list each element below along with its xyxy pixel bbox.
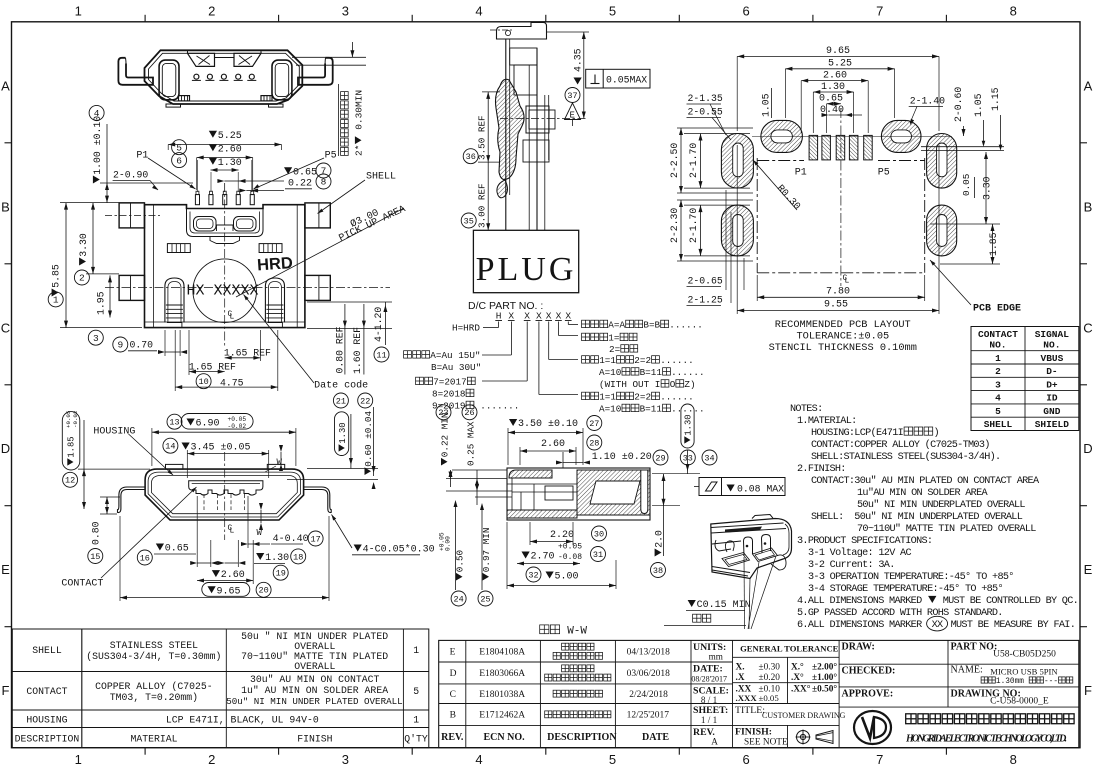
svg-text:B: B: [1, 199, 10, 214]
rev table text: [441, 643, 670, 743]
svg-text:±0.20: ±0.20: [759, 673, 781, 683]
svg-text:A=10: A=10: [599, 367, 621, 378]
svg-text:XX: XX: [932, 620, 943, 631]
svg-text:7: 7: [876, 752, 883, 767]
svg-text:27: 27: [589, 419, 599, 429]
svg-text:0.60 ±0.04: 0.60 ±0.04: [363, 410, 374, 466]
svg-text:A=Au 15U": A=Au 15U": [430, 350, 480, 361]
svg-text:FINISH:: FINISH:: [735, 727, 772, 738]
svg-text:2-1.70: 2-1.70: [688, 143, 699, 178]
svg-text:70~110U" MATTE TIN PLATED OVER: 70~110U" MATTE TIN PLATED OVERALL: [857, 523, 1036, 535]
svg-text:......: ......: [671, 367, 704, 378]
front view side lugs: [119, 203, 330, 301]
svg-text:CONTACT: CONTACT: [61, 579, 103, 590]
mating view dashed contact lines: [204, 494, 245, 510]
dim 0.65 (7): [284, 167, 292, 174]
svg-text:.X: .X: [736, 673, 745, 683]
svg-text:.......: .......: [475, 401, 520, 412]
svg-text:HOUSING:LCP(E471I: HOUSING:LCP(E471I: [811, 427, 904, 439]
svg-text:1: 1: [413, 715, 419, 726]
svg-text:3.30: 3.30: [982, 176, 993, 200]
svg-text:C: C: [450, 690, 456, 700]
svg-text:1u" AU MIN ON SOLDER AREA: 1u" AU MIN ON SOLDER AREA: [241, 685, 388, 696]
svg-text:-0.08: -0.08: [558, 553, 582, 562]
svg-text:A: A: [1084, 78, 1093, 93]
svg-text:5.25: 5.25: [828, 59, 852, 70]
svg-text:5: 5: [609, 4, 616, 19]
zone letters sides: [1, 78, 1093, 698]
svg-text:B: B: [1084, 199, 1093, 214]
svg-text:6.ALL DIMENSIONS MARKER: 6.ALL DIMENSIONS MARKER: [797, 620, 922, 631]
dim 3.00 REF: [477, 183, 488, 228]
pcb dim 2-2.50: [669, 143, 680, 178]
svg-text:7.80: 7.80: [826, 287, 850, 298]
top view shell outline: [145, 50, 303, 104]
svg-text:±0.05: ±0.05: [759, 693, 780, 703]
svg-text:5.00: 5.00: [555, 572, 579, 583]
svg-text:2.0: 2.0: [654, 530, 665, 548]
dim 1.00 +-0.10 (4): [89, 105, 104, 120]
svg-text:32: 32: [528, 570, 538, 580]
dim 0.22 MIN (23): [436, 405, 451, 420]
svg-text:1.MATERIAL:: 1.MATERIAL:: [797, 416, 857, 427]
code letters: [495, 311, 571, 322]
svg-text:TM03, T=0.20mm): TM03, T=0.20mm): [110, 692, 198, 703]
plug stem: [490, 23, 588, 231]
section caption: [540, 625, 549, 634]
svg-text:5.25: 5.25: [218, 131, 242, 142]
svg-text:12: 12: [65, 476, 75, 486]
svg-text:DRAW:: DRAW:: [842, 642, 875, 653]
svg-text:A=A: A=A: [608, 320, 625, 331]
title block grid: [439, 640, 1079, 747]
svg-text:MICRO USB 5PIN: MICRO USB 5PIN: [990, 667, 1058, 677]
svg-text:13: 13: [169, 418, 179, 428]
svg-text:E1804108A: E1804108A: [479, 647, 525, 657]
svg-text:CUSTOMER DRAWING: CUSTOMER DRAWING: [762, 711, 846, 720]
svg-text:ECN NO.: ECN NO.: [484, 732, 526, 743]
svg-text:0.00: 0.00: [445, 536, 452, 551]
svg-text:2.60: 2.60: [221, 570, 245, 581]
svg-text:1.10 ±0.20: 1.10 ±0.20: [592, 452, 652, 463]
svg-text:B=11: B=11: [640, 367, 663, 378]
svg-text:3: 3: [995, 379, 1001, 390]
dim 9.65 (20): [256, 582, 271, 597]
svg-text:......: ......: [669, 320, 702, 331]
svg-text:F: F: [1084, 683, 1092, 698]
svg-text:X: X: [565, 311, 571, 322]
svg-text:3-4 STORAGE TEMPERATURE:-45° T: 3-4 STORAGE TEMPERATURE:-45° TO +85°: [808, 583, 1003, 595]
svg-text:X: X: [556, 311, 562, 322]
svg-text:1.85: 1.85: [988, 232, 999, 256]
svg-text:38: 38: [653, 566, 663, 576]
top view lugs: [159, 60, 292, 100]
svg-text:CONTACT:COPPER ALLOY (C7025-TM: CONTACT:COPPER ALLOY (C7025-TM03): [811, 439, 990, 451]
svg-text:.XX°: .XX°: [791, 684, 811, 695]
svg-text:2.FINISH:: 2.FINISH:: [797, 464, 846, 475]
3d perspective view: [711, 515, 792, 579]
svg-text:(WITH OUT I: (WITH OUT I: [599, 379, 660, 390]
dim 4.75 (10): [196, 374, 211, 389]
pcb 3.30 right: [982, 176, 993, 200]
svg-text:1.05: 1.05: [973, 93, 984, 117]
svg-text:2.20: 2.20: [550, 530, 574, 541]
svg-text:31: 31: [593, 550, 603, 560]
svg-text:NO.: NO.: [989, 340, 1006, 351]
svg-text:50u" NI MIN UNDER PLATED OVERA: 50u" NI MIN UNDER PLATED OVERALL: [226, 696, 402, 707]
svg-text:Z): Z): [684, 379, 695, 390]
svg-text:mm: mm: [709, 652, 723, 662]
svg-text:1: 1: [413, 645, 419, 656]
datum flag E: [565, 103, 581, 120]
svg-text:2.60: 2.60: [823, 71, 847, 82]
svg-text:2=2: 2=2: [634, 392, 651, 403]
svg-text:±2.00°: ±2.00°: [812, 662, 837, 673]
svg-text:C-U58-0000_E: C-U58-0000_E: [990, 697, 1049, 707]
svg-text:TOLERANCE:±0.05: TOLERANCE:±0.05: [797, 331, 890, 343]
svg-text:3.30: 3.30: [78, 233, 89, 257]
dim 1.30 (6): [172, 153, 187, 168]
svg-text:......: ......: [660, 355, 693, 366]
svg-text:GND: GND: [1043, 406, 1060, 417]
svg-text:22: 22: [360, 396, 370, 406]
svg-text:3: 3: [342, 752, 349, 767]
svg-text:B: B: [450, 711, 456, 721]
svg-text:-0.02: -0.02: [228, 423, 247, 430]
molding note cjk: [341, 92, 349, 156]
dim 0.70 (9): [113, 337, 128, 352]
svg-text:STAINLESS STEEL: STAINLESS STEEL: [110, 640, 198, 651]
pcb dim 2-1.70 lower: [688, 208, 699, 243]
svg-text:......: ......: [671, 404, 704, 415]
svg-text:......: ......: [660, 392, 693, 403]
svg-text:7: 7: [321, 166, 327, 177]
svg-text:1: 1: [75, 752, 82, 767]
svg-text:8: 8: [1010, 752, 1017, 767]
svg-text:21: 21: [336, 396, 346, 406]
svg-text:7=2017: 7=2017: [433, 377, 466, 388]
svg-text:24: 24: [453, 594, 463, 604]
svg-text:4-C0.05*0.30: 4-C0.05*0.30: [363, 544, 435, 556]
svg-text:5: 5: [413, 686, 419, 697]
dim 0.60 (22): [358, 393, 373, 408]
section view body: [507, 468, 650, 520]
svg-text:DESCRIPTION: DESCRIPTION: [547, 732, 617, 743]
pcb pads outer left top: [721, 134, 956, 256]
svg-text:3.00 REF: 3.00 REF: [477, 183, 488, 228]
dim 0.80 REF: [335, 326, 346, 373]
svg-text:2: 2: [208, 752, 215, 767]
svg-text:PCB EDGE: PCB EDGE: [973, 304, 1021, 315]
svg-text:0.25 MAX: 0.25 MAX: [466, 421, 477, 466]
finish symbols: [796, 730, 834, 745]
svg-text:VBUS: VBUS: [1041, 353, 1064, 364]
svg-text:4: 4: [995, 393, 1001, 404]
dim 0.50 (24): [451, 591, 466, 606]
svg-text:2.60: 2.60: [541, 439, 565, 450]
front view mouth: [187, 209, 264, 244]
svg-text:---: ---: [1044, 678, 1058, 686]
svg-text:Q'TY: Q'TY: [404, 734, 428, 745]
svg-text:MATERIAL: MATERIAL: [131, 734, 178, 745]
svg-text:A: A: [1, 78, 10, 93]
svg-text:CONTACT:30u" AU MIN PLATED ON: CONTACT:30u" AU MIN PLATED ON CONTACT AR…: [811, 475, 1040, 487]
svg-text:5: 5: [609, 752, 616, 767]
svg-text:8 / 1: 8 / 1: [701, 695, 718, 705]
svg-text:11: 11: [376, 350, 386, 360]
dim 4-1.20 (11): [373, 307, 384, 342]
svg-text:1=: 1=: [608, 333, 620, 344]
tree connectors: [482, 322, 578, 395]
molding note 2*0.30MIN: [354, 90, 365, 156]
svg-text:0.65: 0.65: [165, 544, 189, 555]
svg-text:3: 3: [93, 333, 99, 344]
svg-text:2=: 2=: [609, 344, 621, 355]
dim 0.97 MIN (25): [478, 591, 493, 606]
svg-text:0.70: 0.70: [130, 340, 154, 351]
svg-text:2-1.70: 2-1.70: [688, 208, 699, 243]
dim 1.85 (12): [63, 472, 78, 487]
draw/checked/approve labels: [842, 642, 1073, 707]
svg-text:6: 6: [742, 4, 749, 19]
svg-text:9.55: 9.55: [824, 300, 848, 311]
svg-text:34: 34: [704, 453, 714, 463]
svg-text:E: E: [1084, 562, 1093, 577]
svg-text:H=HRD: H=HRD: [452, 323, 480, 334]
svg-text:D: D: [1, 441, 10, 456]
datum frame 0.08MAX: [699, 478, 785, 496]
svg-text:2-2.30: 2-2.30: [669, 208, 680, 243]
dim 0.80 (15): [88, 549, 103, 564]
svg-text:5.GP PASSED ACCORD WITH ROHS S: 5.GP PASSED ACCORD WITH ROHS STANDARD.: [797, 608, 1003, 619]
dim 4.35: [573, 48, 584, 72]
svg-text:1=1: 1=1: [599, 392, 616, 403]
svg-text:30: 30: [594, 529, 604, 539]
svg-text:REV.: REV.: [441, 732, 464, 743]
svg-text:+0.05: +0.05: [558, 543, 582, 552]
section left extension lines: [446, 478, 507, 480]
mating view top tabs: [166, 464, 183, 469]
svg-text:4: 4: [475, 752, 482, 767]
svg-text:SEE NOTE: SEE NOTE: [744, 738, 788, 748]
svg-text:3-1 Voltage: 12V AC: 3-1 Voltage: 12V AC: [808, 547, 911, 559]
pcb pads upper ovals: [761, 120, 921, 152]
pcb dim 1.15 right: [990, 87, 1001, 111]
svg-text:CHECKED:: CHECKED:: [842, 666, 896, 677]
svg-text:36: 36: [466, 152, 476, 162]
svg-text:±1.00°: ±1.00°: [812, 672, 837, 683]
svg-text:.XXX: .XXX: [736, 693, 758, 703]
svg-text:C: C: [1, 320, 10, 335]
svg-text:-0.02: -0.02: [72, 410, 79, 428]
svg-text:PLUG: PLUG: [476, 251, 577, 288]
top view molding note leaders: [292, 42, 366, 65]
svg-text:L: L: [845, 277, 850, 286]
svg-text:8: 8: [1010, 4, 1017, 19]
svg-text:1 / 1: 1 / 1: [701, 715, 718, 725]
svg-text:3.50 ±0.10: 3.50 ±0.10: [518, 419, 578, 430]
pcb board outline: [757, 108, 1004, 286]
svg-text:0.80: 0.80: [91, 521, 102, 545]
svg-text:2-1.40: 2-1.40: [910, 96, 945, 107]
svg-text:DATE:: DATE:: [693, 664, 723, 675]
mating view legs: [118, 487, 332, 513]
svg-text:20: 20: [258, 586, 268, 596]
svg-text:MUST BE MEASURE BY FAI.: MUST BE MEASURE BY FAI.: [951, 620, 1076, 631]
svg-text:): ): [934, 427, 939, 439]
svg-text:5: 5: [176, 142, 182, 153]
svg-text:30u" AU MIN ON CONTACT: 30u" AU MIN ON CONTACT: [250, 674, 379, 685]
svg-text:18: 18: [293, 552, 303, 562]
svg-text:F: F: [2, 683, 10, 698]
company name cn: [906, 714, 917, 724]
svg-text:GENERAL TOLERANCE: GENERAL TOLERANCE: [740, 644, 839, 654]
svg-text:1: 1: [995, 353, 1001, 364]
contact signal table: [971, 327, 1079, 431]
svg-text:2-0.65: 2-0.65: [688, 276, 723, 287]
svg-text:±0.30: ±0.30: [759, 663, 781, 673]
dim 5.00 (32): [526, 567, 541, 582]
notes block: [790, 404, 1078, 631]
svg-text:1.05: 1.05: [761, 93, 772, 117]
svg-text:1.30: 1.30: [821, 82, 845, 93]
svg-text:1=1: 1=1: [599, 355, 616, 366]
svg-text:4.75: 4.75: [220, 377, 244, 388]
svg-text:0.65: 0.65: [293, 167, 317, 178]
svg-text:±0.50°: ±0.50°: [812, 684, 837, 695]
svg-text:2/24/2018: 2/24/2018: [629, 690, 668, 700]
svg-text:OVERALL: OVERALL: [294, 661, 335, 672]
top view bottom tabs: [166, 96, 283, 108]
svg-text:1u"AU MIN ON SOLDER AREA: 1u"AU MIN ON SOLDER AREA: [857, 487, 989, 499]
svg-text:RECOMMENDED PCB LAYOUT: RECOMMENDED PCB LAYOUT: [775, 319, 911, 331]
svg-text:D+: D+: [1046, 379, 1058, 390]
svg-text:2-1.25: 2-1.25: [688, 295, 723, 306]
front view vent slots: [167, 244, 282, 253]
svg-text:1.85: 1.85: [67, 436, 77, 457]
svg-text:25: 25: [480, 594, 490, 604]
svg-text:A: A: [711, 737, 718, 747]
front view body: [145, 205, 305, 328]
svg-text:3.PRODUCT SPECIFICATIONS:: 3.PRODUCT SPECIFICATIONS:: [797, 536, 932, 547]
svg-text:X: X: [536, 311, 542, 322]
front view feet: [165, 278, 285, 328]
svg-text:P1: P1: [136, 151, 148, 162]
svg-text:(SUS304-3/4H, T=0.30mm): (SUS304-3/4H, T=0.30mm): [86, 651, 221, 662]
svg-text:DESCRIPTION: DESCRIPTION: [15, 734, 80, 745]
svg-text:LCP E471I, BLACK, UL 94V-0: LCP E471I, BLACK, UL 94V-0: [166, 715, 319, 726]
mating view tongue: [189, 481, 263, 495]
svg-text:26: 26: [464, 408, 474, 418]
svg-text:6: 6: [742, 752, 749, 767]
svg-text:0.50: 0.50: [455, 550, 466, 572]
svg-text:MUST BE CONTROLLED BY QC.: MUST BE CONTROLLED BY QC.: [937, 596, 1078, 607]
label pick up area: [349, 207, 381, 231]
svg-text:1.30mm: 1.30mm: [996, 678, 1029, 686]
dim 6.90 (13): [167, 414, 182, 429]
svg-text:E: E: [570, 111, 575, 121]
svg-text:4.ALL DIMENSIONS MARKED: 4.ALL DIMENSIONS MARKED: [797, 596, 927, 607]
svg-text:0.97 MIN: 0.97 MIN: [481, 528, 492, 573]
label shift: [582, 333, 590, 341]
mating view centerline: [224, 452, 226, 540]
svg-text:PART NO:: PART NO:: [951, 642, 998, 653]
c0.15 leaders: [743, 557, 746, 629]
dim 3.45 (14): [163, 438, 178, 453]
svg-text:17: 17: [310, 534, 320, 544]
svg-text:SHIELD: SHIELD: [1035, 419, 1070, 430]
pcb pin pads: [809, 135, 872, 160]
svg-text:1.30: 1.30: [265, 553, 289, 564]
pin centre extension lines: [196, 160, 198, 192]
svg-text:28: 28: [589, 438, 599, 448]
svg-text:CONTACT: CONTACT: [978, 329, 1018, 340]
label C0.15 MIN: [688, 600, 696, 607]
svg-text:16: 16: [140, 553, 150, 563]
dim 1.30 (18): [291, 549, 306, 564]
svg-text:X: X: [508, 311, 514, 322]
svg-text:1.30: 1.30: [218, 158, 242, 169]
svg-text:2.60: 2.60: [218, 144, 242, 155]
svg-text:D: D: [450, 669, 457, 679]
pcb dim 1.05 left: [761, 93, 772, 117]
svg-text:1.60 REF: 1.60 REF: [352, 327, 363, 374]
svg-text:9.65: 9.65: [217, 586, 241, 597]
units column text: [691, 642, 729, 747]
svg-text:6.90: 6.90: [196, 419, 220, 430]
svg-text:0.22: 0.22: [288, 178, 312, 189]
svg-text:SHELL:STAINLESS STEEL(SUS304-3: SHELL:STAINLESS STEEL(SUS304-3/4H).: [811, 451, 1000, 463]
dim 5.25: [209, 131, 217, 138]
svg-text:E1712462A: E1712462A: [479, 711, 525, 721]
svg-text:H: H: [496, 311, 502, 322]
svg-text:CONTACT: CONTACT: [26, 686, 67, 697]
svg-text:2-0.90: 2-0.90: [113, 170, 148, 181]
top view left leg: [118, 58, 332, 85]
svg-text:A=10: A=10: [599, 404, 621, 415]
svg-text:10: 10: [198, 377, 208, 387]
svg-text:P5: P5: [878, 168, 890, 179]
pcb dim 2-1.70 upper: [688, 143, 699, 178]
dim 1.30 (21): [333, 393, 348, 408]
svg-text:HOUSING: HOUSING: [93, 427, 135, 438]
svg-text:3: 3: [342, 4, 349, 19]
svg-text:STENCIL THICKNESS 0.10mm: STENCIL THICKNESS 0.10mm: [769, 342, 917, 354]
materials table text: [15, 631, 428, 745]
svg-text:9=2019: 9=2019: [432, 401, 465, 412]
svg-text:0.05MAX: 0.05MAX: [606, 74, 647, 85]
circles 33 34: [680, 450, 695, 465]
dim 5.85 (1): [48, 292, 63, 307]
svg-text:8=2018: 8=2018: [432, 389, 465, 400]
label year: [416, 377, 424, 385]
svg-text:35: 35: [464, 216, 474, 226]
svg-text:HRD: HRD: [257, 254, 294, 274]
svg-text:P1: P1: [795, 168, 807, 179]
svg-text:C: C: [1083, 320, 1092, 335]
svg-text:1.30: 1.30: [684, 414, 694, 435]
svg-text:15: 15: [90, 552, 100, 562]
svg-text:SHELL: SHELL: [984, 419, 1013, 430]
svg-text:1.00 ±0.10: 1.00 ±0.10: [92, 116, 103, 175]
svg-text:+0.05: +0.05: [65, 410, 72, 428]
datum frame 0.05MAX: [586, 69, 650, 88]
dim 0.25 MAX (26): [462, 405, 477, 420]
svg-text:2: 2: [995, 366, 1001, 377]
svg-text:L: L: [230, 313, 235, 322]
svg-text:TITLE:: TITLE:: [735, 705, 765, 716]
svg-text:1.15: 1.15: [990, 87, 1001, 111]
